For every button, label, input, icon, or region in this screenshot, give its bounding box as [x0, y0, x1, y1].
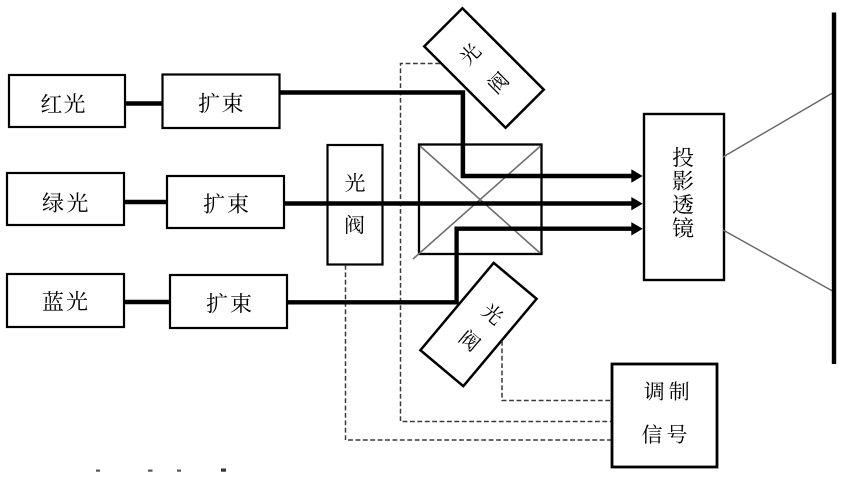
modulation signal box 调制信号 — [612, 364, 717, 467]
beam expander box 扩束 (red row) — [163, 75, 280, 129]
wire blue laser to expander — [124, 300, 171, 305]
speck artifact 2 — [148, 470, 153, 472]
blue laser box 蓝光 — [7, 274, 124, 327]
speck artifact 3 — [177, 470, 181, 472]
green beam path wire — [284, 201, 633, 206]
dashed control wire: modulation signal to center light valve — [346, 265, 613, 440]
projection cone lower line — [723, 230, 833, 291]
speck artifact 1 — [96, 470, 100, 472]
arrowhead green beam — [631, 197, 642, 210]
red beam path wire — [280, 93, 633, 177]
arrowhead blue beam — [631, 222, 642, 235]
beam combiner cube (X-cube prism) — [413, 145, 542, 260]
wire red laser to expander — [125, 101, 163, 106]
light valve (green channel) box 光阀 — [328, 145, 383, 265]
dashed control wire: modulation signal to top light valve — [401, 64, 613, 422]
green laser box 绿光 — [7, 173, 124, 225]
screen (projection surface) — [832, 13, 836, 365]
projection lens box 投影透镜 — [644, 114, 724, 280]
beam expander box 扩束 (green row) — [167, 176, 284, 228]
red laser box 红光 — [9, 75, 125, 127]
dashed control wire: modulation signal to bottom light valve — [502, 341, 612, 401]
wire green laser to expander — [124, 200, 168, 205]
arrowhead red beam — [631, 169, 642, 182]
speck artifact 4 — [221, 469, 226, 472]
projection cone upper line — [723, 93, 833, 157]
light valve (red channel), rotated box 光阀 — [424, 8, 544, 128]
blue beam path wire — [287, 229, 633, 303]
light valve (blue channel), rotated box 光阀 — [420, 263, 536, 386]
beam expander box 扩束 (blue row) — [170, 275, 287, 328]
